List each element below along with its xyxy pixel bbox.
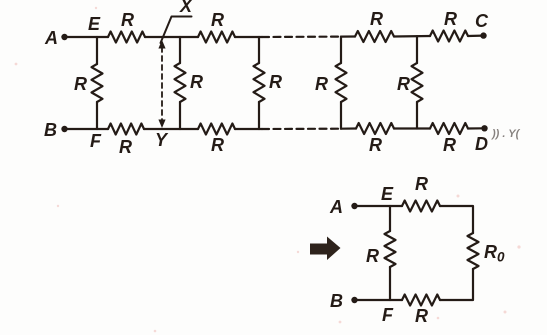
wire vertical stub node 4 bottom (340, 102, 342, 129)
resistor R vertical 2 (175, 63, 186, 102)
resistor R vertical 4 (336, 63, 347, 102)
resistor R vertical EF (385, 231, 396, 267)
svg-text:R: R (366, 246, 379, 266)
resistor R vertical 5 (412, 63, 423, 102)
wire dashed top rail continuation (262, 35, 341, 38)
wire eq right bottom (440, 269, 473, 300)
wire vertical stub node 3 bottom (258, 102, 260, 129)
resistor R top 4 (430, 31, 468, 42)
terminal dot C (480, 32, 486, 38)
wire vertical stub F (96, 102, 98, 129)
wire eq stub F (389, 267, 391, 300)
svg-text:A: A (44, 28, 58, 48)
svg-text:R: R (444, 9, 457, 29)
svg-text:F: F (90, 131, 102, 151)
resistor R bottom 1 (108, 124, 144, 135)
resistor R eq top (402, 201, 440, 212)
resistor R vertical E-F (92, 64, 103, 102)
wire vertical stub node 2 bottom (179, 102, 181, 129)
svg-text:R: R (370, 9, 383, 29)
terminal dot B eq (351, 297, 357, 303)
svg-text:R: R (190, 72, 203, 92)
wire vertical stub node 2 top (179, 37, 181, 63)
svg-text:D: D (475, 134, 488, 154)
wire bottom rail after second resistor (235, 128, 262, 130)
svg-text:R: R (397, 74, 410, 94)
arrowhead down at Y (158, 120, 165, 129)
svg-text:B: B (330, 291, 343, 311)
wire top rail A to E to resistor (64, 36, 108, 38)
wire vertical stub node 5 top (416, 36, 418, 63)
wire vertical stub E (96, 37, 98, 64)
wire bottom rail between resistors 3 and 4 (394, 127, 430, 129)
svg-text:R: R (415, 306, 428, 326)
wire eq top rail (354, 205, 402, 207)
terminal dot B (61, 126, 67, 132)
wire eq bottom rail (354, 299, 402, 301)
resistor R0 (468, 233, 479, 269)
wire top rail between resistors 3 and 4 (394, 35, 430, 38)
svg-text:R: R (119, 137, 132, 157)
svg-text:F: F (382, 305, 394, 325)
wire bottom rail Y segment (144, 128, 198, 130)
svg-text:Y: Y (155, 130, 169, 150)
svg-text:A: A (329, 197, 343, 217)
wire eq top rail right (440, 206, 473, 233)
wire vertical stub node 4 top (340, 37, 342, 63)
resistor R bottom 2 (198, 124, 235, 135)
wire top rail X node segment (145, 36, 198, 38)
wire dashed bottom rail continuation (262, 128, 341, 131)
svg-text:R: R (121, 10, 134, 30)
resistor R eq bottom (402, 295, 440, 306)
wire vertical stub node 5 bottom (416, 102, 418, 129)
resistor R top 1 (108, 32, 145, 43)
equivalent circuit (354, 201, 479, 306)
wire top rail after second resistor (235, 36, 262, 38)
X callout line (161, 17, 192, 44)
wire vertical stub node 3 top (258, 37, 260, 63)
svg-text:R: R (211, 135, 224, 155)
resistor R top 3 (355, 31, 394, 42)
svg-text:R0: R0 (484, 242, 505, 265)
svg-text:R: R (211, 10, 224, 30)
svg-text:R: R (443, 135, 456, 155)
svg-text:B: B (44, 120, 57, 140)
svg-text:X: X (179, 0, 193, 16)
wire top rail to terminal C (468, 34, 483, 37)
terminal dot A eq (351, 203, 357, 209)
svg-text:R: R (269, 72, 282, 92)
svg-text:R: R (74, 74, 87, 94)
wire bottom rail section 4 (341, 127, 356, 129)
svg-text:R: R (369, 135, 382, 155)
resistor R bottom 4 (430, 123, 468, 134)
svg-text:R: R (315, 74, 328, 94)
block arrow (310, 237, 341, 261)
resistor R bottom 3 (356, 123, 394, 134)
svg-text:R: R (415, 174, 428, 194)
svg-text:C: C (475, 11, 489, 31)
wire bottom rail to terminal D (468, 127, 484, 129)
terminal dot D (481, 125, 487, 131)
terminal dot A (61, 34, 67, 40)
svg-text:E: E (88, 14, 101, 34)
dashed arrow X to Y (161, 47, 163, 121)
svg-text:E: E (381, 184, 394, 204)
wire top rail section 4 (341, 35, 355, 37)
svg-text:)) . Y(: )) . Y( (491, 128, 521, 140)
arrowhead up at X (158, 40, 165, 49)
wire bottom rail B to F to resistor (64, 128, 108, 130)
wire eq stub E (389, 206, 391, 231)
resistor R top 2 (198, 32, 235, 43)
resistor R vertical 3 (254, 63, 265, 102)
